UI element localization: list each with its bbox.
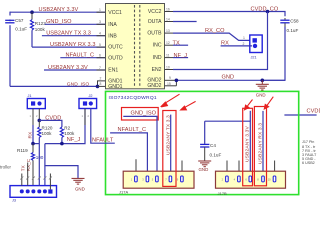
resistor R119 bbox=[31, 144, 34, 186]
svg-text:6 USB2: 6 USB2 bbox=[302, 161, 315, 165]
capacitor C58 bbox=[280, 18, 289, 27]
svg-text:ISO7342CQDWRQ1: ISO7342CQDWRQ1 bbox=[109, 95, 157, 101]
svg-text:USB2ANY RX 3.3: USB2ANY RX 3.3 bbox=[258, 123, 264, 164]
svg-text:NF_J: NF_J bbox=[174, 53, 188, 59]
svg-text:10: 10 bbox=[166, 65, 170, 69]
svg-text:5: 5 bbox=[99, 43, 101, 47]
wire pad10 stub bbox=[274, 161, 276, 177]
svg-text:J17 Pin: J17 Pin bbox=[302, 140, 314, 144]
svg-text:GND: GND bbox=[222, 75, 235, 81]
svg-text:GND: GND bbox=[199, 167, 209, 172]
wire GND2 row to C58 bbox=[176, 79, 285, 81]
svg-text:100k: 100k bbox=[64, 131, 75, 136]
svg-text:USB2ANY TX 3.3: USB2ANY TX 3.3 bbox=[46, 31, 91, 37]
ground symbol right bbox=[256, 80, 269, 90]
svg-text:NF_J: NF_J bbox=[67, 137, 81, 143]
svg-text:0.1uF: 0.1uF bbox=[210, 153, 222, 158]
annotation red box USB2ANY 3.3V bbox=[243, 108, 253, 186]
svg-text:11: 11 bbox=[166, 53, 170, 57]
svg-text:12: 12 bbox=[166, 41, 170, 45]
svg-text:INB: INB bbox=[108, 33, 117, 39]
annotation arrow C to 3.3V box bbox=[244, 100, 253, 111]
wire CVDD_CO right edge bbox=[284, 114, 316, 116]
svg-text:3: 3 bbox=[99, 20, 101, 24]
svg-text:USB2ANY 3.3V: USB2ANY 3.3V bbox=[245, 125, 251, 162]
svg-text:NFAULT: NFAULT bbox=[92, 138, 114, 144]
svg-text:GND_ISO: GND_ISO bbox=[131, 111, 157, 117]
wire J3 pin5 lead bbox=[44, 166, 46, 186]
wire GND1 pin2 jog bbox=[98, 81, 107, 87]
node junction CVDD_CO bbox=[266, 10, 270, 14]
svg-text:J21: J21 bbox=[251, 55, 257, 59]
svg-text:7: 7 bbox=[99, 66, 101, 70]
op-amp U1 ISO7342 body bbox=[106, 4, 165, 89]
svg-text:EN2: EN2 bbox=[152, 67, 162, 73]
svg-text:0.1uF: 0.1uF bbox=[15, 26, 27, 31]
svg-text:6: 6 bbox=[99, 54, 101, 58]
node junction RX R119 bbox=[31, 142, 35, 146]
wire pad9 stub bbox=[181, 161, 183, 177]
wire IND NF_J stub bbox=[173, 57, 188, 59]
pin stubs left of U1 bbox=[97, 12, 107, 86]
wire USB2ANY 3.3V row7 bbox=[44, 69, 106, 71]
jumper J2 bbox=[79, 99, 97, 109]
wire J3 pin6 lead stub bbox=[49, 174, 51, 190]
capacitor C4 bbox=[200, 121, 209, 160]
wire OUTA stub bbox=[173, 21, 197, 23]
wire J1 pin1 lead RX bbox=[32, 109, 34, 144]
wire GND_ISO bottom row bbox=[10, 85, 98, 87]
svg-text:NFAULT_C: NFAULT_C bbox=[118, 127, 147, 133]
node junction dot row1/R123 bbox=[30, 10, 34, 14]
ground symbol C4 bbox=[198, 161, 211, 167]
connector J17A bbox=[123, 171, 194, 188]
svg-text:14: 14 bbox=[166, 17, 170, 21]
wire RX row junction bbox=[33, 143, 39, 145]
svg-text:USB2ANY RX 3.3: USB2ANY RX 3.3 bbox=[50, 42, 96, 48]
node junction GND2 bbox=[175, 79, 179, 83]
svg-text:USB2ANY TX 3.3: USB2ANY TX 3.3 bbox=[165, 115, 171, 155]
svg-text:R123: R123 bbox=[35, 21, 46, 26]
svg-text:USB2ANY 3.3V: USB2ANY 3.3V bbox=[39, 7, 79, 13]
svg-text:R120: R120 bbox=[42, 125, 53, 130]
wire OUTB RX_CO to J21 pin1 bbox=[173, 33, 250, 40]
annotation red box TX label bbox=[163, 111, 176, 187]
connector J3 bbox=[10, 186, 57, 198]
wire GND2 pin15 jog bbox=[175, 80, 177, 86]
svg-text:EN1: EN1 bbox=[108, 68, 118, 74]
svg-text:VCC1: VCC1 bbox=[108, 10, 122, 16]
svg-text:GND: GND bbox=[75, 187, 85, 192]
svg-text:USB2ANY 3.3V: USB2ANY 3.3V bbox=[48, 65, 88, 71]
svg-text:troller: troller bbox=[0, 165, 12, 170]
svg-text:2: 2 bbox=[243, 42, 245, 46]
svg-text:VCC2: VCC2 bbox=[148, 9, 162, 15]
wire J3 pin2 lead TX bbox=[27, 163, 29, 186]
svg-text:J17B: J17B bbox=[218, 191, 227, 196]
jumper J1 bbox=[27, 99, 45, 109]
svg-text:100k: 100k bbox=[42, 131, 53, 136]
ground symbol left bbox=[72, 178, 85, 184]
svg-text:CVDD_CO: CVDD_CO bbox=[307, 108, 320, 114]
wire C4 to pad6 bbox=[205, 121, 251, 176]
wire EN2 tie to CVDD_CO bbox=[173, 12, 268, 70]
svg-text:15: 15 bbox=[167, 82, 171, 86]
wire USB2ANY TX 3.3 row4 bbox=[42, 35, 106, 37]
annotation arrow A to GND_ISO bbox=[160, 94, 179, 107]
annotation arrow D to RX box bbox=[264, 97, 274, 110]
svg-text:R2: R2 bbox=[64, 125, 70, 130]
svg-text:9: 9 bbox=[169, 76, 171, 80]
wire C58 ground return bbox=[262, 27, 285, 81]
svg-text:GND_ISO: GND_ISO bbox=[46, 19, 72, 25]
wire pad2 stub bbox=[226, 161, 228, 177]
capacitor C57 bbox=[5, 16, 14, 26]
wire INC TX stub bbox=[173, 44, 188, 46]
svg-text:0.1uF: 0.1uF bbox=[287, 28, 299, 33]
svg-text:CVDD_CO: CVDD_CO bbox=[251, 6, 279, 12]
wire J3 pin1 lead stub bbox=[21, 174, 23, 186]
wire NFAULT_C in box bbox=[110, 133, 147, 176]
annotation red box USB2ANY RX 3.3 bbox=[254, 107, 266, 186]
wire J1 pin2 lead to CVDD bbox=[38, 109, 40, 121]
wire pad4 stub bbox=[238, 161, 240, 177]
wire ground branch J3 bbox=[45, 144, 78, 178]
svg-text:TX: TX bbox=[173, 40, 180, 46]
note text J17 pin functions bbox=[302, 140, 317, 165]
svg-text:J3: J3 bbox=[12, 199, 16, 203]
wire CVDD row bbox=[39, 120, 62, 127]
wire RX to J21 pin2 bbox=[221, 45, 252, 47]
svg-text:J2: J2 bbox=[89, 94, 93, 98]
connector J17B bbox=[216, 171, 286, 188]
svg-text:16: 16 bbox=[166, 7, 170, 11]
tick marks J3 bbox=[20, 177, 52, 180]
svg-text:OUTA: OUTA bbox=[148, 19, 162, 25]
wire USB2ANY RX 3.3 row5 bbox=[32, 46, 106, 48]
svg-text:RX_C: RX_C bbox=[26, 158, 31, 171]
svg-text:INA: INA bbox=[108, 22, 117, 28]
svg-text:GND: GND bbox=[256, 93, 266, 98]
svg-text:J17A: J17A bbox=[119, 190, 128, 195]
wire pad8 lead RX bbox=[262, 111, 264, 176]
svg-text:INC: INC bbox=[153, 43, 162, 49]
wire NFAULT_C row6 bbox=[60, 57, 106, 59]
pin stubs right of U1 bbox=[165, 12, 177, 86]
svg-text:OUTD: OUTD bbox=[108, 55, 123, 61]
node junction CVDD bbox=[38, 119, 42, 123]
svg-text:NFAULT_C: NFAULT_C bbox=[66, 53, 95, 59]
svg-text:8: 8 bbox=[100, 82, 102, 86]
svg-text:GND_ISO: GND_ISO bbox=[67, 82, 90, 88]
resistor R2 bbox=[60, 127, 63, 144]
wire pad6 lead stub bbox=[249, 111, 251, 121]
svg-text:GND1: GND1 bbox=[108, 84, 122, 90]
node junction GND1 bbox=[96, 85, 100, 89]
svg-text:2: 2 bbox=[100, 77, 102, 81]
wire left vertical C57 branch bbox=[9, 12, 11, 87]
svg-text:RX_CO: RX_CO bbox=[205, 28, 225, 34]
wire NF_J row bbox=[45, 109, 85, 144]
svg-text:OUTB: OUTB bbox=[147, 31, 162, 37]
svg-text:RX: RX bbox=[28, 131, 34, 139]
wire USB2ANY 3.3V row1 bbox=[10, 11, 106, 13]
wire J2 pin1 lead dark bbox=[84, 109, 86, 126]
svg-text:1: 1 bbox=[243, 36, 245, 40]
svg-text:1: 1 bbox=[99, 8, 101, 12]
svg-text:13: 13 bbox=[166, 29, 170, 33]
resistor R123 bbox=[30, 12, 33, 47]
wire J3 pin4 lead bbox=[38, 144, 40, 186]
svg-text:100k: 100k bbox=[35, 27, 46, 32]
svg-text:C58: C58 bbox=[290, 18, 299, 23]
wire GND_ISO underline to pad5 bbox=[123, 116, 157, 176]
wire VCC2 CVDD_CO bbox=[173, 12, 285, 17]
svg-text:J1: J1 bbox=[28, 94, 32, 98]
node junction GND dot right bbox=[261, 79, 265, 83]
svg-text:GND2: GND2 bbox=[147, 83, 161, 89]
svg-text:R119: R119 bbox=[17, 148, 28, 153]
node junction R2 NF_J bbox=[60, 142, 64, 146]
connector J21 bbox=[250, 35, 262, 53]
wire pad1 stub bbox=[135, 159, 137, 176]
svg-text:TX: TX bbox=[21, 165, 26, 171]
annotation red box GND_ISO bbox=[122, 108, 159, 121]
wire GND_ISO row3 bbox=[45, 23, 106, 25]
resistor R120 bbox=[38, 120, 41, 143]
svg-text:OUTC: OUTC bbox=[108, 45, 123, 51]
svg-text:CVDD: CVDD bbox=[45, 115, 61, 121]
green highlight box bbox=[106, 91, 299, 194]
wire pad7 lead TX bbox=[170, 115, 172, 176]
svg-text:RX: RX bbox=[221, 41, 229, 47]
svg-text:4: 4 bbox=[99, 32, 101, 36]
svg-text:C4: C4 bbox=[210, 143, 216, 148]
wire J2 pin2 lead NFAULT bbox=[91, 109, 115, 144]
annotation arrow B to TX box bbox=[179, 101, 195, 110]
svg-text:C57: C57 bbox=[15, 18, 24, 23]
svg-text:IND: IND bbox=[153, 55, 162, 61]
